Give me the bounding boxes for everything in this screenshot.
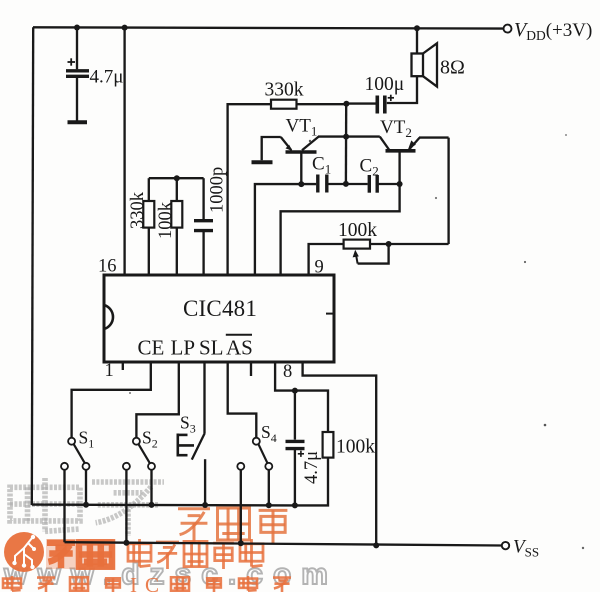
switch S2 blade [139,444,150,463]
svg-text:330k: 330k [128,191,148,229]
node S2 lower bus [123,540,129,546]
wire C6 bottom lead [294,449,296,506]
label pin 9 [315,258,324,278]
node C6 bus junction [292,502,298,508]
wire C6 top lead [294,391,296,440]
svg-text:CE: CE [138,336,165,360]
wire C3 top lead [202,178,204,219]
capacitor C2 plates [369,175,377,193]
node rail-pin16 [122,25,128,31]
wire RP left lead [309,244,344,275]
label VT2 [380,117,412,140]
label 4.7u [90,67,124,88]
wire speaker top lead [416,28,418,53]
label 100k pot [338,220,377,241]
label VDD(+3V) [514,19,592,43]
svg-text:1000p: 1000p [208,167,228,213]
svg-text:VSS: VSS [513,537,539,560]
label S2 [142,428,158,451]
svg-text:C: C [145,573,159,592]
svg-text:VT2: VT2 [380,117,412,140]
wire S2 left stem [125,470,127,543]
terminal S2 right [148,463,155,470]
switch S4 blade [259,444,268,463]
watermark (decorative) [3,478,338,592]
wire VT1 base lead [300,154,302,185]
svg-text:S2: S2 [142,428,158,451]
wire pin1 stub [122,362,124,370]
label 1000p vertical [208,167,228,213]
wire pin8 to VSS [303,362,377,545]
wire R3 right lead [297,103,347,105]
transistor VT2 base bar [386,149,416,153]
svg-text:4.7μ: 4.7μ [90,67,124,88]
wire VT1 emitter to ground [262,137,281,160]
speaker BL driver box [412,54,424,77]
ground bar below C5 [68,120,88,124]
label pin 16 [98,257,117,277]
node pin8 VSS junction [373,542,379,548]
svg-text:SL: SL [199,336,224,360]
wire left border [32,27,33,505]
label C1 [312,154,331,177]
wire pin7 to RC [275,362,328,432]
node rail-speaker [414,25,420,31]
terminal S4 top [253,438,260,445]
chip U1 right inner tick [326,313,333,315]
wire pin2 to S1 [72,362,151,438]
transistor VT1 emitter arrow [281,137,293,151]
wire top VDD rail [33,27,506,28]
switch S3 button [178,434,194,457]
label VSS [513,537,539,560]
svg-text:LP: LP [171,336,196,360]
label C6 plus sign [298,451,304,457]
wire RP right lead [370,243,449,245]
label S3 [180,413,196,436]
label 8 ohm [440,57,465,79]
transistor VT1 base bar [286,150,317,154]
label C5 plus sign [68,58,76,65]
node S2 bus [149,502,155,508]
wire VT2 base lead [398,153,400,185]
svg-text:100k: 100k [336,437,375,458]
wire R2 bottom lead [176,228,178,275]
wire S3 bottom lead [204,459,206,505]
wire R3 left lead [228,104,271,275]
resistor R2 100k body [171,201,182,228]
terminal S4 right [265,463,272,470]
terminal S1 right [83,463,90,470]
node osc junction [174,175,180,181]
node VT2 base junction [397,181,403,187]
terminal S2 top [133,438,140,445]
wire N2 to VT2 collector [346,135,380,137]
svg-text:1: 1 [105,361,114,381]
wire C5 bottom lead [76,77,78,121]
terminal S1 left [61,463,68,470]
svg-text:S4: S4 [261,422,277,445]
svg-text:100k: 100k [156,201,176,239]
label 4.7u vertical [302,451,322,484]
wire C4 left lead [346,102,375,104]
terminal VSS [502,542,509,549]
terminal VDD [504,25,512,33]
label C2 [360,156,379,179]
capacitor C5 4.7u plates [66,71,89,77]
wire R4 bottom lead [295,458,328,506]
svg-text:VT1: VT1 [286,116,318,139]
label 100u [365,74,405,95]
wire R1 bottom lead [148,228,150,275]
svg-text:9: 9 [315,258,324,278]
svg-text:330k: 330k [265,80,304,101]
capacitor C1 plates [318,175,327,193]
svg-text:S3: S3 [180,413,196,436]
label CIC481 [183,296,257,321]
speckle marks [129,134,584,549]
node N3 C1-C2 junction [343,181,349,187]
switch S3 blade [192,433,205,460]
wire switch bus [32,503,295,506]
node RP wiper junction [386,241,392,247]
wire R2 top lead [176,178,178,201]
transistor VT1 collector [302,137,319,151]
speaker BL cone [423,43,437,86]
svg-text:100μ: 100μ [365,74,405,95]
wire pin10 to VT2 base [281,184,400,275]
svg-text:100k: 100k [338,220,377,241]
capacitor C3 1000p plates [194,221,213,231]
capacitor C4 100u plates [377,96,385,114]
label 100k vertical [156,201,176,239]
wire C2 right lead [377,183,399,185]
wire S4 left stem [240,470,242,543]
node S4 lower bus [238,540,244,546]
wire C1 right lead [327,183,346,185]
label 100k R4 [336,437,375,458]
resistor R3 330k body [271,100,297,109]
chip U1 notch [104,305,113,329]
potentiometer RP wiper arrow [353,250,359,264]
wire S1 left stem [63,470,65,542]
wire pin4 to S3 [203,362,205,433]
wire speaker bottom lead [387,76,417,103]
transistor VT2 collector [380,137,390,150]
label CE LP SL AS [138,335,253,360]
switch S1 blade [74,444,85,463]
label 330k horizontal [265,80,304,101]
node N2 collectors [343,134,349,140]
svg-text:C1: C1 [312,154,331,177]
wire C3 bottom lead [202,231,204,275]
label 330k vertical [128,191,148,229]
ground bar VT1 [252,160,273,164]
svg-text:8Ω: 8Ω [440,57,465,79]
chip U1 CIC481 body [104,275,334,362]
node S3 bus [202,502,208,508]
wire osc node [149,177,204,179]
wire RP wiper [358,244,389,264]
wire VT1 collector to N2 [318,135,346,137]
wire pin5 to S4 [228,362,257,438]
potentiometer RP body [344,240,370,249]
svg-text:I: I [130,573,137,592]
wire pin3 to S2 [136,362,178,438]
wire pin16 to rail [123,28,125,275]
wire VT2 emitter right [419,136,449,138]
wire C5 top lead [76,28,78,70]
label pin 8 [283,362,292,382]
label C4 plus sign [388,95,394,101]
svg-text:AS: AS [226,336,253,360]
svg-text:4.7μ: 4.7μ [302,451,322,484]
wire node N1 vertical [345,104,348,184]
wire R1 top lead [148,178,150,201]
wire pin6 stub [250,362,252,376]
transistor VT2 emitter arrow [408,138,419,150]
terminal S1 top [68,438,75,445]
label S1 [79,428,95,451]
label S4 [261,422,277,445]
label VT1 [286,116,318,139]
node S4 bus [266,502,272,508]
wire S1 right stem [85,470,87,505]
node rail-C5 [74,25,80,31]
node VT1 base junction [298,181,304,187]
svg-text:8: 8 [283,362,292,382]
node S1 bus [83,502,89,508]
label pin 1 [105,361,114,381]
resistor R1 330k body [143,201,154,228]
terminal S2 left [123,463,130,470]
wire pin11 to VT1 base/C1 [255,184,316,275]
wire right vertical emitter-pot [447,138,449,244]
svg-text:VDD(+3V): VDD(+3V) [514,19,592,43]
wire VSS bus [65,542,503,545]
resistor R4 100k body [323,432,334,458]
svg-text:16: 16 [98,257,117,277]
capacitor C6 4.7u plates [286,441,305,448]
node pin7 cap junction [292,388,298,394]
node N1 junction 330k/100u [343,101,349,107]
wire N3 to C2 [346,183,368,185]
terminal S4 left [237,463,244,470]
wire S2 right stem [150,470,152,505]
wire S4 right stem [268,470,270,505]
svg-text:CIC481: CIC481 [183,296,257,321]
svg-text:S1: S1 [79,428,95,451]
